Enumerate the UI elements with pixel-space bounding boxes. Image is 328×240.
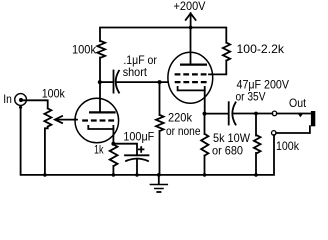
svg-text:+200V: +200V bbox=[174, 0, 206, 13]
svg-text:or none: or none bbox=[166, 124, 201, 138]
svg-text:100k: 100k bbox=[42, 86, 66, 100]
svg-text:220k: 220k bbox=[168, 111, 193, 125]
svg-text:100k: 100k bbox=[72, 43, 97, 57]
svg-text:short: short bbox=[123, 65, 148, 79]
svg-text:or 35V: or 35V bbox=[236, 90, 266, 104]
svg-text:100μF: 100μF bbox=[123, 129, 154, 143]
svg-text:or 680: or 680 bbox=[212, 144, 243, 158]
svg-text:100-2.2k: 100-2.2k bbox=[237, 42, 286, 56]
svg-text:In: In bbox=[3, 92, 12, 106]
svg-text:100k: 100k bbox=[276, 139, 300, 153]
svg-text:Out: Out bbox=[289, 96, 307, 110]
svg-text:1k: 1k bbox=[94, 142, 104, 156]
